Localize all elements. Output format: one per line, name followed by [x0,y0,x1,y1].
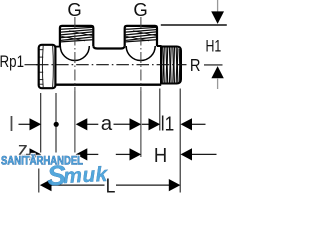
svg-text:a: a [101,112,113,135]
svg-text:G: G [67,0,81,20]
svg-text:H: H [154,144,167,167]
svg-text:R: R [190,55,201,75]
svg-text:l1: l1 [161,112,175,135]
svg-text:H1: H1 [206,38,222,56]
svg-text:l: l [9,114,13,136]
svg-text:G: G [133,0,147,20]
svg-text:Rp1: Rp1 [0,52,24,71]
